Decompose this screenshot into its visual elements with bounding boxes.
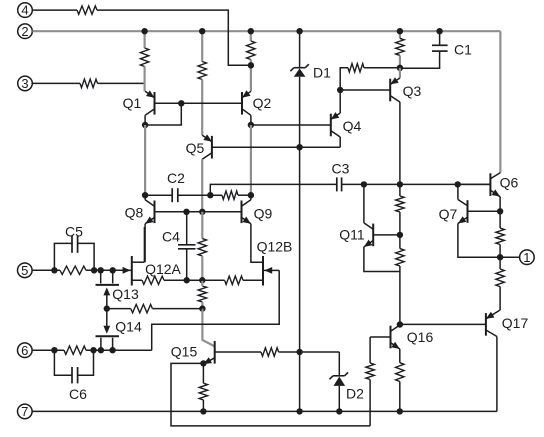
wire rail to R Q1 (144, 31, 146, 48)
junction C1 node (397, 65, 403, 71)
wire Q11 base to R (399, 235, 401, 249)
resistor Q15 base (261, 348, 279, 356)
label Q16 (407, 329, 434, 345)
label Q17 (502, 315, 529, 331)
svg-text:Q3: Q3 (403, 83, 422, 99)
svg-text:Q1: Q1 (123, 95, 142, 111)
transistor Q3 (390, 68, 400, 102)
label Q12B (257, 239, 293, 255)
junction y352 x300 (296, 349, 302, 355)
wire Q5 collector down (201, 159, 203, 212)
junction C6 right (90, 347, 96, 353)
svg-text:C2: C2 (167, 170, 185, 186)
label Q14 (115, 319, 142, 335)
wire R down to Q16 collector (399, 266, 401, 325)
svg-text:Q12B: Q12B (257, 239, 293, 255)
transistor Q12B (263, 256, 279, 286)
wire R to D2 corner (279, 351, 340, 353)
wire Q16 base down (369, 337, 371, 363)
wire pin1 node to pin1 (500, 256, 519, 258)
wire C2 node up and right (210, 184, 336, 195)
svg-text:Q16: Q16 (407, 329, 434, 345)
pin 4 terminal (18, 3, 33, 18)
wire Q3 collector down (399, 102, 401, 184)
junction Q5 collector tap (199, 209, 205, 215)
label Q4 (343, 118, 362, 134)
junction rail D1 (296, 408, 302, 414)
wire Q6 base (458, 183, 491, 185)
wire pin4 to Q2 emitter node (97, 10, 251, 65)
zener D1 (290, 31, 308, 147)
wire Q3 base (340, 89, 390, 91)
wire R to Q1 emitter (144, 67, 146, 92)
wire down to Q15 collector (202, 309, 214, 347)
transistor Q11 (364, 184, 373, 247)
svg-text:4: 4 (21, 3, 28, 18)
resistor Q6e to pin1 (496, 228, 504, 244)
junction C6 left (51, 347, 57, 353)
resistor pin4 series (77, 6, 97, 14)
junction rail x202 (199, 28, 205, 34)
wire Q2 collector stub (250, 115, 252, 125)
pin 7 terminal (18, 404, 33, 419)
wire Q2 collector down to Q9 (250, 125, 252, 195)
junction rail Q16R (397, 408, 403, 414)
wire to R (201, 212, 203, 239)
svg-text:7: 7 (21, 404, 28, 419)
junction Q16 collector (397, 321, 403, 327)
resistor Q16 emitter (396, 363, 404, 382)
pin 5 terminal (18, 263, 33, 278)
resistor Q1 emitter load (140, 48, 148, 67)
junction C5 right (91, 267, 97, 273)
label C3 (332, 161, 350, 177)
svg-text:C4: C4 (162, 229, 180, 245)
junction rail x251 (248, 28, 254, 34)
resistor x400 upper (396, 196, 404, 212)
junction Q11 base (397, 232, 403, 238)
transistor Q9 (242, 195, 251, 224)
junction rail C1 (436, 28, 442, 34)
label D1 (313, 65, 331, 81)
resistor Q3 feed (396, 38, 404, 55)
transistor Q15 (203, 341, 214, 364)
transistor Q16 (370, 325, 400, 349)
label Q11 (339, 227, 365, 243)
wire R to Q12B (243, 279, 263, 281)
wire y308 row left (107, 308, 131, 310)
wire rail to R Q2 (250, 31, 252, 41)
wire R to C4 node (164, 279, 187, 281)
svg-text:Q2: Q2 (253, 95, 272, 111)
wire rail to R Q3 (399, 31, 401, 38)
wire D1 node down to bottom rail (299, 147, 301, 411)
transistor Q13 (96, 270, 120, 308)
capacitor C5 (54, 236, 94, 270)
wire pin4 node to Q2 emitter (250, 65, 252, 91)
wire Q7 emitter down to pin1 node (458, 224, 500, 258)
resistor Q16 base (366, 363, 374, 380)
junction rail Q15R (200, 408, 206, 414)
wire node to R2 (499, 257, 501, 269)
junction Q1 collector (142, 122, 148, 128)
wire pin5 (32, 269, 60, 271)
wire right rail down to Q6 (499, 31, 501, 172)
junction Q14 right prong (109, 347, 115, 353)
wire Q1 collector stub (144, 115, 146, 125)
resistor C2 row (222, 191, 238, 199)
wire R to Q5 emitter (201, 80, 203, 136)
transistor Q7 (458, 184, 468, 223)
wire R to Q9 collector (238, 194, 251, 196)
junction C3 Q11 (361, 181, 367, 187)
wire Q16 collector to Q17 base (400, 323, 486, 325)
pin 1 terminal (520, 250, 535, 265)
wire Q1 collector loop to base (145, 103, 181, 125)
transistor Q1 (145, 90, 154, 115)
wire C4 node to x202 (187, 279, 203, 281)
label Q12A (145, 261, 181, 277)
label C4 (162, 229, 180, 245)
wire R to rail (202, 400, 204, 412)
wire Q8 base to Q9 base (155, 211, 242, 213)
junction C2 right (207, 192, 213, 198)
svg-text:C6: C6 (69, 386, 87, 402)
wire R to Q4 emitter node (340, 68, 348, 90)
wire Q11 emitter return (364, 247, 400, 272)
wire C3 to R (399, 184, 401, 196)
junction rail D2 (336, 408, 342, 414)
junction rail x400 (397, 28, 403, 34)
label Q13 (112, 286, 139, 302)
pin 3 terminal (18, 76, 33, 91)
wire pin3 (32, 82, 80, 84)
wire R to pin1 node (499, 245, 501, 258)
junction Q14 left prong (98, 347, 104, 353)
svg-text:6: 6 (21, 343, 28, 358)
svg-text:Q12A: Q12A (145, 261, 181, 277)
wire Q12A drain up (143, 227, 145, 262)
resistor pin1 to Q17 (496, 269, 504, 287)
wire R to bottom loop (369, 380, 371, 426)
resistor pin3 series (80, 79, 98, 87)
wire x202 to R (202, 279, 224, 281)
resistor mid column lower (198, 286, 206, 302)
label C6 (69, 386, 87, 402)
wire pin5 to Q12A gate (86, 269, 125, 271)
junction rail x145 (141, 28, 147, 34)
wire Q15 emitter down (202, 363, 204, 383)
wire pin4 (32, 9, 77, 11)
svg-text:C3: C3 (332, 161, 350, 177)
resistor Q12B source (225, 276, 243, 284)
label Q2 (253, 95, 272, 111)
wire Q6 emitter to node (499, 197, 501, 212)
wire R2 to Q17 emitter (499, 287, 501, 310)
label C2 (167, 170, 185, 186)
wire pin3 to Q1 emitter (98, 82, 146, 84)
svg-text:D1: D1 (313, 65, 331, 81)
wire y147 row (212, 146, 340, 148)
svg-text:5: 5 (21, 263, 28, 278)
svg-text:Q8: Q8 (125, 205, 144, 221)
resistor Q3 base feed (348, 64, 364, 72)
svg-text:C1: C1 (454, 42, 472, 58)
junction Q7 collector node (455, 181, 461, 187)
transistor Q8 (145, 195, 154, 224)
resistor Q5 emitter load (198, 62, 206, 80)
resistor pin6 series (64, 346, 86, 354)
junction Q9 collector (248, 192, 254, 198)
wire Q15 base row (215, 351, 261, 353)
wire R to rail (399, 382, 401, 412)
svg-text:Q17: Q17 (502, 315, 529, 331)
label C1 (454, 42, 472, 58)
label Q8 (125, 205, 144, 221)
zener D2 (330, 352, 349, 411)
wire Q12B gate loop (152, 270, 280, 350)
wire R to Q11 base (399, 212, 401, 235)
pin 2 terminal (18, 24, 33, 39)
label Q5 (186, 140, 205, 156)
junction Q2 collector (248, 122, 254, 128)
wire pin6 row to corner (86, 349, 152, 351)
wire Q5 base row (212, 146, 340, 148)
junction Q6e Q7b (497, 208, 503, 214)
junction C4 tap (183, 209, 189, 215)
svg-text:2: 2 (21, 24, 28, 39)
junction y308 x202 (199, 305, 205, 311)
wire Q8 collector node to C2 (145, 194, 172, 196)
wire C1 node to R (364, 67, 400, 69)
wire Q4 collector to y147 (339, 137, 341, 147)
wire Q2 collector to Q4 base (251, 124, 331, 126)
transistor Q14 (96, 309, 120, 351)
capacitor C2 (172, 188, 222, 202)
junction C3 x400 (397, 181, 403, 187)
resistor Q12A source (142, 276, 164, 284)
label Q3 (403, 83, 422, 99)
svg-text:Q11: Q11 (339, 227, 365, 243)
svg-text:Q6: Q6 (500, 175, 519, 191)
svg-text:D2: D2 (346, 386, 364, 402)
svg-text:Q7: Q7 (439, 206, 458, 222)
wire Q7 base (468, 210, 501, 212)
svg-text:3: 3 (21, 76, 28, 91)
resistor Q15 emitter (199, 383, 207, 400)
transistor Q12A (123, 256, 145, 286)
wire node to R (499, 211, 501, 228)
label C5 (65, 224, 83, 240)
capacitor C6 (54, 350, 93, 383)
wire pin6 (32, 349, 64, 351)
svg-text:Q15: Q15 (171, 344, 198, 360)
transistor Q2 (242, 90, 251, 115)
svg-text:1: 1 (523, 250, 530, 265)
svg-text:C5: C5 (65, 224, 83, 240)
wire 280 to R (201, 280, 203, 286)
wire R to C1 node (399, 55, 401, 67)
junction D1 y147 (296, 144, 302, 150)
capacitor C4 (178, 212, 196, 280)
resistor x400 lower (396, 249, 404, 266)
capacitor C1 (400, 31, 448, 68)
junction pin4 node (248, 62, 254, 68)
label Q7 (439, 206, 458, 222)
wire Q1 collector down to Q8 (144, 125, 146, 195)
junction Q13 right prong (110, 267, 116, 273)
label Q1 (123, 95, 142, 111)
wire R to y308 row (201, 302, 203, 309)
transistor Q5 (202, 134, 212, 159)
resistor mid column upper (198, 239, 206, 256)
junction source row x202 (199, 277, 205, 283)
wire Q8 emitter down to Q12A (144, 224, 146, 262)
svg-text:Q13: Q13 (112, 286, 139, 302)
junction Q15 emitter (200, 360, 206, 366)
svg-text:Q14: Q14 (115, 319, 142, 335)
label Q6 (500, 175, 519, 191)
resistor Q2 emitter load (247, 41, 255, 60)
wire Q1 base to Q2 base (155, 102, 243, 104)
wire Q16 emitter down (399, 349, 401, 363)
svg-text:Q4: Q4 (343, 118, 362, 134)
svg-text:Q5: Q5 (186, 140, 205, 156)
junction y308 left (104, 305, 110, 311)
junction Q13 left prong (98, 267, 104, 273)
label Q9 (254, 206, 273, 222)
junction C2 left (142, 192, 148, 198)
resistor y308 row (131, 304, 153, 312)
wire R to pin4 node (250, 60, 252, 66)
wire Q15 emitter loop (171, 363, 370, 426)
resistor pin5 series (60, 266, 86, 274)
junction pin1 node (497, 254, 503, 260)
transistor Q17 (486, 310, 500, 337)
transistor Q6 (490, 173, 500, 197)
wire rail to R Q5 (201, 31, 203, 61)
pin 6 terminal (18, 343, 33, 358)
label D2 (346, 386, 364, 402)
wire Q9 emitter down to Q12B (251, 224, 263, 262)
wire y308 row right (152, 308, 202, 310)
wire Q11 base (373, 234, 400, 236)
transistor Q4 (331, 90, 340, 137)
junction C4 bottom (184, 277, 190, 283)
junction Q3 base node (337, 87, 343, 93)
junction base row (178, 100, 184, 106)
wire R to source row (201, 256, 203, 280)
wire Q17 collector down (496, 337, 498, 412)
junction rail D1 (296, 28, 302, 34)
junction C5 left (51, 267, 57, 273)
wire V+ rail pin2 (32, 30, 500, 32)
capacitor C3 (337, 177, 491, 191)
label Q15 (171, 344, 198, 360)
svg-text:Q9: Q9 (254, 206, 273, 222)
wire V- rail pin7 (32, 410, 497, 412)
